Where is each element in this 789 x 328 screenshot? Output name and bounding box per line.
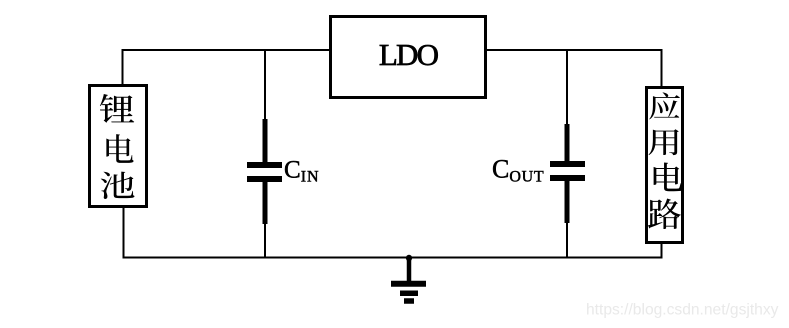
load label 应用电路 (648, 92, 682, 229)
wire: battery negative lead (vertical) (123, 207, 125, 258)
wire: bottom ground rail (123, 257, 663, 259)
wire: load box bottom lead (vertical) (661, 243, 663, 259)
ground symbol (391, 258, 426, 301)
wire: top rail left (battery to LDO input) (122, 49, 331, 51)
wire: top rail right (LDO output to load) (486, 49, 663, 51)
wire: battery positive lead (vertical) (122, 51, 124, 84)
svg-text:LDO: LDO (379, 37, 439, 72)
svg-text:https://blog.csdn.net/gsjthxy: https://blog.csdn.net/gsjthxy (586, 301, 779, 318)
junction dot: ground node (406, 255, 412, 261)
load box (应用电路) (647, 88, 683, 243)
svg-text:COUT: COUT (492, 155, 544, 186)
capacitor C_IN (247, 51, 282, 257)
battery box (锂电池) (90, 86, 147, 207)
capacitor C_OUT (550, 51, 585, 257)
battery label 锂电池 (100, 94, 135, 199)
wire: load box top lead (vertical) (661, 49, 663, 87)
regulator U1: LDO box (331, 17, 486, 98)
svg-text:CIN: CIN (284, 157, 320, 186)
